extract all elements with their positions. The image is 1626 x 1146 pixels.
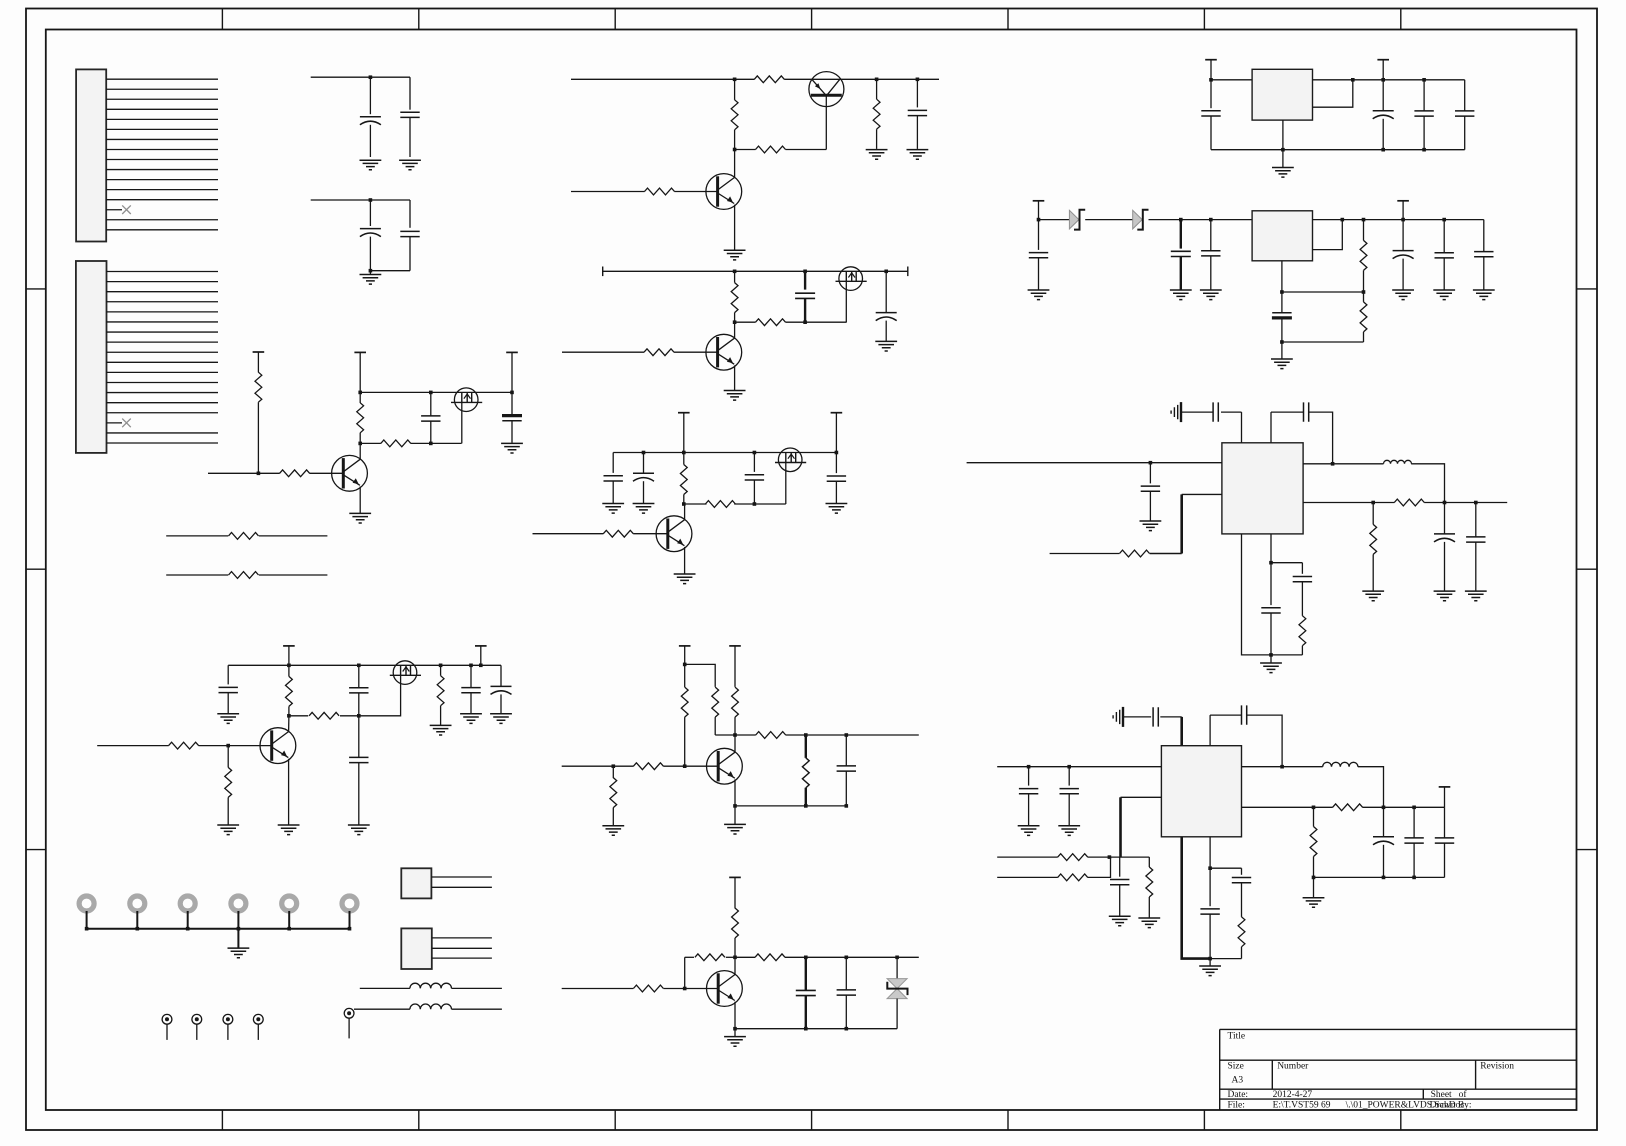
wire C5 top lead bbox=[430, 392, 432, 416]
wire C42 top lead bbox=[1028, 767, 1030, 786]
wire C8 bottom lead (bold) bbox=[804, 299, 806, 322]
wire R37 top lead bbox=[1372, 503, 1374, 525]
transistor Q12 bbox=[707, 971, 743, 1007]
wire C15 bottom lead bbox=[358, 693, 360, 716]
wire C10 bottom lead bbox=[612, 481, 614, 503]
wire Q8 collector bbox=[684, 504, 686, 520]
junction R34 top bbox=[1362, 218, 1366, 222]
ground under C28 bbox=[1200, 290, 1222, 300]
wire C18 bottom lead bbox=[500, 694, 502, 713]
wire R2 bottom lead bbox=[359, 433, 361, 444]
ground under Q11 bbox=[724, 824, 746, 834]
wire C10 top lead bbox=[612, 453, 614, 473]
diode D3 (TVS, bidirectional zener) bbox=[887, 979, 907, 989]
capacitor C37 bbox=[1466, 537, 1485, 542]
wire C38 bottom lead bbox=[1270, 613, 1272, 655]
ground under U1 bbox=[1272, 168, 1294, 178]
resistor R24 bbox=[712, 687, 719, 717]
capacitor C47 bbox=[1435, 838, 1454, 843]
wire U3 en pin vertical (bold) bbox=[1180, 494, 1183, 553]
wire rail block7 bbox=[603, 270, 908, 272]
junction base node9 bbox=[226, 744, 230, 748]
wire TP5 stem bbox=[348, 1018, 350, 1038]
wire C26 bottom lead bbox=[1038, 258, 1040, 290]
junction bottom14 bbox=[1280, 340, 1284, 344]
junction C43 top bbox=[1067, 765, 1071, 769]
connector J2 bbox=[401, 928, 432, 969]
ground under C26 bbox=[1028, 290, 1050, 300]
wire L2 left bbox=[354, 1008, 410, 1010]
junction U1 gnd bbox=[1281, 148, 1285, 152]
junction C23 bottom bbox=[1381, 148, 1385, 152]
resistor R17 bbox=[603, 530, 633, 537]
wire C2 top lead bbox=[409, 77, 411, 110]
wire Q6 base left bbox=[562, 351, 644, 353]
junction C37 top bbox=[1474, 501, 1478, 505]
junction C31 top bbox=[1442, 218, 1446, 222]
wire C9 bottom lead bbox=[885, 321, 887, 341]
wire C45 top lead bbox=[1383, 807, 1385, 837]
capacitor C19 bbox=[837, 766, 856, 771]
wire to ground11 bbox=[734, 1029, 736, 1037]
capacitor C26 bbox=[1029, 253, 1048, 258]
wire C14 bottom lead bbox=[227, 693, 229, 714]
transistor Q11 bbox=[707, 748, 743, 784]
wire Q12 emitter bbox=[734, 1002, 736, 1029]
resistor R28 bbox=[633, 763, 663, 770]
wire Q5 gate bbox=[845, 281, 847, 322]
ground under C32 bbox=[1473, 290, 1495, 300]
junction C41 bottom bbox=[1280, 765, 1284, 769]
svg-text:E:\T.VST59 69: E:\T.VST59 69 bbox=[1273, 1101, 1331, 1111]
capacitor C33 bbox=[1213, 402, 1218, 421]
junction net6 a bbox=[733, 78, 737, 82]
wire U1 sense loop bbox=[1313, 80, 1353, 107]
title block text bbox=[1228, 1032, 1515, 1111]
resistor R22 bbox=[225, 767, 232, 797]
wire C31 bottom lead bbox=[1443, 258, 1445, 290]
capacitor C10 bbox=[604, 476, 623, 481]
junction C8 top bbox=[803, 270, 807, 274]
resistor R1 bbox=[255, 372, 262, 402]
ground under U3 bbox=[1260, 663, 1282, 673]
wire comp branch bbox=[1271, 562, 1302, 564]
wire R12 top lead bbox=[734, 271, 736, 282]
junction comp gnd bbox=[1269, 653, 1273, 657]
wire node B7 right bbox=[786, 321, 847, 323]
wire C44 top lead bbox=[1119, 857, 1121, 877]
wire power to C6 bbox=[511, 352, 513, 392]
wire TP3 stem bbox=[227, 1024, 229, 1040]
wire corner to base11 bbox=[684, 957, 686, 988]
wire to ground bbox=[369, 271, 371, 274]
ground under C11 bbox=[633, 504, 655, 514]
wire C47 bottom lead bbox=[1444, 843, 1446, 877]
wire C28 bottom lead bbox=[1210, 256, 1212, 290]
wire R31 right lead bbox=[726, 956, 735, 958]
wire M3 stem bbox=[187, 911, 189, 929]
ground under C17 bbox=[460, 714, 482, 724]
wire C14 top lead bbox=[227, 665, 229, 684]
junction C13 top bbox=[835, 451, 839, 455]
resistor R23 bbox=[681, 687, 688, 717]
test point TP3 bbox=[223, 1014, 233, 1024]
junction C21 top bbox=[845, 956, 849, 960]
svg-text:Number: Number bbox=[1277, 1062, 1309, 1072]
junction comp gnd16 bbox=[1208, 957, 1212, 961]
test point TP2 bbox=[192, 1014, 202, 1024]
wire Q8 base left bbox=[533, 533, 604, 535]
wire C19 top lead bbox=[845, 735, 847, 766]
wire Q11 base right bbox=[663, 765, 718, 767]
capacitor C39 bbox=[1293, 577, 1312, 582]
wire to C33 bbox=[1221, 411, 1242, 413]
resistor R25 bbox=[732, 687, 739, 717]
wire C3 bottom lead bbox=[369, 237, 371, 271]
inductor L3 bbox=[1384, 460, 1412, 464]
wire C15 top lead bbox=[358, 665, 360, 687]
junction bus M3 bbox=[186, 927, 190, 931]
wire power to node A5 bbox=[359, 352, 361, 392]
wire R22 top lead bbox=[227, 746, 229, 768]
ground under R42 bbox=[1138, 918, 1160, 928]
junction C5 bottom bbox=[429, 442, 433, 446]
chassis ground C40 bbox=[1122, 707, 1124, 727]
wire D1 to D2 bbox=[1085, 219, 1133, 221]
wire C20 top lead (bold) bbox=[805, 957, 807, 990]
ground under Q4 bbox=[724, 250, 746, 260]
power port block10 a bbox=[679, 645, 691, 647]
no-connect X on P1 pin 14 bbox=[122, 205, 131, 214]
junction C20 bottom bbox=[804, 1027, 808, 1031]
junction R37 top bbox=[1371, 501, 1375, 505]
resistor R36 bbox=[1120, 550, 1150, 557]
wire R35 top lead bbox=[1363, 292, 1365, 302]
ground under C18 bbox=[490, 714, 512, 724]
ground under U4 bbox=[1199, 966, 1221, 976]
transistor Q6 bbox=[706, 334, 742, 370]
svg-text:Revision: Revision bbox=[1480, 1062, 1514, 1072]
wire rail block9 bbox=[228, 664, 501, 666]
capacitor C30 (polarized) bbox=[1393, 250, 1414, 252]
wire C37 top lead bbox=[1475, 503, 1477, 537]
junction gnd16 a bbox=[1312, 876, 1316, 880]
border zone ticks horizontal bbox=[222, 9, 1400, 1131]
wire R2 top lead bbox=[359, 392, 361, 403]
junction base10 a bbox=[612, 764, 616, 768]
junction rail9 d bbox=[469, 664, 473, 668]
wire R22 bottom lead bbox=[227, 797, 229, 824]
wire R20 bottom lead bbox=[440, 706, 442, 725]
wire to ground15 bbox=[1270, 655, 1272, 663]
junction node B9 bbox=[287, 714, 291, 718]
power port block9 right bbox=[475, 645, 487, 647]
chassis ground C33 bbox=[1180, 402, 1182, 422]
wire gnd rail16 bbox=[1314, 876, 1445, 878]
capacitor C36 (polarized) bbox=[1434, 533, 1455, 535]
svg-text:2012-4-27: 2012-4-27 bbox=[1273, 1090, 1313, 1100]
ground under C16 bbox=[348, 825, 370, 835]
ground under R43 bbox=[1303, 898, 1325, 908]
junction C23 top bbox=[1381, 78, 1385, 82]
junction rail8 R15 bbox=[682, 451, 686, 455]
wire L4 to out bbox=[1358, 767, 1384, 808]
wire C30 top lead bbox=[1402, 220, 1404, 251]
wire Q4 base left bbox=[571, 191, 645, 193]
wire C22 top lead bbox=[1210, 80, 1212, 108]
wire Q12 collector bbox=[734, 957, 736, 975]
power port block9 bbox=[283, 645, 295, 647]
wire M4 stem bbox=[237, 911, 239, 929]
capacitor C27 (bold leads) bbox=[1171, 251, 1191, 256]
wire rail11 right bbox=[785, 956, 919, 958]
wire TP2 stem bbox=[196, 1024, 198, 1040]
wire L1 right bbox=[452, 987, 502, 989]
mounting hole M1 bbox=[79, 896, 94, 911]
resistor R2 bbox=[357, 403, 364, 433]
wire power to R30 bbox=[734, 877, 736, 908]
resistor R8 bbox=[731, 100, 738, 130]
wire R27 top lead (bold) bbox=[805, 735, 807, 758]
wire Q2 emitter bbox=[359, 487, 361, 514]
wire C26 top lead bbox=[1038, 220, 1040, 250]
wire R5 left bbox=[166, 535, 228, 537]
wire U3 en pin horizontal bbox=[1182, 493, 1222, 495]
ground under C31 bbox=[1433, 290, 1455, 300]
wire Q10 emitter bbox=[288, 759, 290, 825]
wire R12 bottom lead bbox=[734, 313, 736, 323]
resistor R34 bbox=[1360, 240, 1367, 270]
svg-text:Drawn By:: Drawn By: bbox=[1430, 1101, 1472, 1111]
wire R23 bottom lead bbox=[684, 717, 686, 766]
junction bus M1 bbox=[85, 927, 89, 931]
wire U3 gnd pin long bbox=[1242, 534, 1272, 655]
capacitor C45 (polarized) bbox=[1373, 836, 1394, 838]
svg-text:A3: A3 bbox=[1232, 1076, 1244, 1086]
capacitor C29 (electrolytic) bbox=[1272, 312, 1291, 314]
resistor R44 bbox=[1333, 804, 1363, 811]
resistor R5 bbox=[229, 533, 259, 540]
junction bus M4 bbox=[237, 927, 241, 931]
wire R5 right bbox=[259, 535, 328, 537]
wire C23 bottom lead bbox=[1382, 119, 1384, 150]
wire C7 top lead bbox=[916, 79, 918, 107]
junction C30 top bbox=[1401, 218, 1405, 222]
wire C29 bottom lead bbox=[1281, 319, 1283, 343]
junction node A5 bbox=[358, 391, 362, 395]
wire C49 top lead bbox=[1241, 868, 1243, 875]
wire C3 top lead bbox=[369, 200, 371, 226]
junction R27 top bbox=[804, 733, 808, 737]
capacitor C12 bbox=[745, 475, 764, 480]
wire C43 top lead bbox=[1068, 767, 1070, 786]
power port block8 bbox=[678, 412, 690, 414]
resistor R11 bbox=[645, 188, 675, 195]
junction C21 bottom bbox=[845, 1027, 849, 1031]
junction node B5 bbox=[358, 442, 362, 446]
resistor R20 bbox=[437, 676, 444, 706]
capacitor C42 bbox=[1019, 789, 1038, 794]
mosfet Q1 bbox=[454, 388, 478, 412]
wire U3 comp pin bbox=[1270, 534, 1272, 563]
capacitor C15 bbox=[349, 688, 368, 693]
wire U3 en to R36 bbox=[1150, 553, 1182, 555]
wire R15 top lead bbox=[683, 453, 685, 465]
capacitor C24 bbox=[1414, 111, 1433, 116]
transistor Q2 bbox=[332, 455, 368, 491]
wire net6 top rail right bbox=[784, 78, 939, 80]
wire Q8 base right bbox=[633, 533, 668, 535]
wire power stub U2 bbox=[1038, 201, 1040, 220]
wire R37 bottom lead bbox=[1372, 554, 1374, 590]
wire C38 top lead bbox=[1270, 563, 1272, 605]
ground under C13 bbox=[826, 504, 848, 514]
capacitor C41 bbox=[1242, 705, 1247, 724]
wire C16 bottom lead bbox=[358, 763, 360, 825]
resistor R38 bbox=[1394, 499, 1424, 506]
capacitor C2 bbox=[400, 112, 419, 117]
resistor R41 bbox=[1058, 874, 1088, 881]
wire C27 bottom lead (bold) bbox=[1180, 257, 1182, 290]
wire collector rail10 right bbox=[786, 734, 919, 736]
test point TP5 bbox=[344, 1008, 354, 1018]
wire node B5 right bbox=[411, 442, 462, 444]
wire Q4 emitter bbox=[734, 205, 736, 250]
resistor R26 bbox=[756, 732, 786, 739]
ground under C30 bbox=[1392, 290, 1414, 300]
mounting hole M5 bbox=[282, 896, 297, 911]
capacitor C48 bbox=[1200, 909, 1219, 914]
wire power stub out16 bbox=[1444, 787, 1446, 807]
wire U1 input bbox=[1211, 79, 1252, 81]
capacitor C17 bbox=[461, 688, 480, 693]
wire U1 out rail bbox=[1353, 79, 1465, 81]
ground under C9 bbox=[875, 341, 897, 351]
resistor R12 bbox=[731, 283, 738, 313]
wire Q6 base right bbox=[674, 351, 718, 353]
wire U1 ground rail bbox=[1211, 149, 1465, 151]
wire FB net14 bbox=[1282, 291, 1364, 293]
wire Q7 gate bbox=[785, 463, 787, 505]
wire U3 sw out bbox=[1303, 463, 1383, 465]
resistor R39 bbox=[1299, 616, 1306, 646]
wire Q4 base right bbox=[674, 191, 717, 193]
capacitor C4 bbox=[400, 231, 419, 236]
wire M1 stem bbox=[86, 911, 88, 929]
resistor R27 (bold leads) bbox=[802, 758, 809, 788]
diode D1 (schottky) bbox=[1069, 210, 1079, 229]
wire to ground14 bbox=[1281, 342, 1283, 359]
capacitor C23 (polarized) bbox=[1373, 110, 1394, 112]
resistor R14 bbox=[644, 349, 674, 356]
wire comp bottom bbox=[1271, 654, 1302, 656]
junction C27 top bbox=[1179, 218, 1183, 222]
svg-text:Sheet: Sheet bbox=[1431, 1090, 1452, 1100]
wire U4 sw out bbox=[1242, 766, 1323, 768]
connector P1 bbox=[76, 69, 106, 241]
wire Q11 base left bbox=[562, 765, 634, 767]
wire R10 top lead bbox=[876, 79, 878, 99]
power port block11 bbox=[729, 876, 741, 878]
wire C49 to R45 bbox=[1241, 883, 1243, 917]
junction out15 bbox=[1443, 501, 1447, 505]
power port U2 output bbox=[1397, 200, 1409, 202]
wire node B5 left bbox=[360, 442, 381, 444]
wire L2 right bbox=[452, 1008, 502, 1010]
resistor R15 bbox=[680, 465, 687, 495]
wire R36 left bbox=[1050, 553, 1120, 555]
wire U4 fb rail left bbox=[1242, 806, 1333, 808]
resistor R32 bbox=[755, 954, 785, 961]
capacitor C5 bbox=[421, 416, 440, 421]
ground under C37 bbox=[1465, 591, 1487, 601]
wire node B9 left bbox=[289, 715, 308, 717]
wire R23 top lead bbox=[684, 664, 686, 687]
mounting hole M6 bbox=[342, 896, 357, 911]
capacitor C38 bbox=[1261, 608, 1280, 613]
wire M2 stem bbox=[136, 911, 138, 929]
wire D2 to U2 bbox=[1149, 219, 1253, 221]
junction U1 out bbox=[1351, 78, 1355, 82]
title block lines bbox=[1220, 1029, 1577, 1110]
wire jog to R24 bbox=[685, 664, 716, 687]
junction C5 top bbox=[429, 391, 433, 395]
power port VCC block5 R1 bbox=[253, 351, 265, 353]
resistor R18 bbox=[286, 676, 293, 706]
junction rail9 a bbox=[287, 664, 291, 668]
capacitor C34 bbox=[1304, 402, 1309, 421]
junction bus M6 bbox=[348, 927, 352, 931]
resistor R9 bbox=[756, 146, 786, 153]
junction U2 in a bbox=[1037, 218, 1041, 222]
wire C21 top lead bbox=[845, 957, 847, 990]
junction rail9 e bbox=[479, 664, 483, 668]
wire to ground U1 bbox=[1282, 150, 1284, 167]
wire C1 bottom lead bbox=[369, 125, 371, 157]
ground under C44 bbox=[1109, 916, 1131, 926]
ground under R29 bbox=[602, 826, 624, 836]
wire U3 fb rail left bbox=[1303, 502, 1394, 504]
wire C17 top lead bbox=[470, 665, 472, 687]
wire node B6 right bbox=[786, 149, 827, 151]
wire in16b left bbox=[997, 876, 1058, 878]
ground under C43 bbox=[1058, 826, 1080, 836]
wire R24 bottom lead bbox=[714, 717, 716, 735]
junction C28 top bbox=[1209, 218, 1213, 222]
wire C41 to output bbox=[1247, 715, 1282, 767]
wire net1 top bbox=[311, 76, 410, 78]
ground under R22 bbox=[217, 825, 239, 835]
capacitor C28 bbox=[1201, 251, 1220, 256]
junction R27 bottom bbox=[804, 804, 808, 808]
ground under R20 bbox=[430, 725, 452, 735]
resistor R6 bbox=[229, 572, 259, 579]
wire R15 bottom lead bbox=[683, 495, 685, 505]
wire U2 sense loop bbox=[1313, 220, 1343, 250]
mounting hole M3 bbox=[180, 896, 195, 911]
wire rail block8 bbox=[613, 452, 836, 454]
wire U4 boot pin up (bold) bbox=[1180, 717, 1183, 746]
ground under mounting bus bbox=[228, 948, 250, 958]
wire Q10 base right bbox=[199, 745, 272, 747]
wire TP4 stem bbox=[257, 1024, 259, 1040]
wire C48 bottom lead bbox=[1209, 914, 1211, 959]
capacitor C25 bbox=[1455, 111, 1474, 116]
mosfet Q7 bbox=[778, 448, 802, 472]
ground under C27 bbox=[1170, 290, 1192, 300]
capacitor C32 bbox=[1474, 252, 1493, 257]
junction gnd16 b bbox=[1382, 876, 1386, 880]
